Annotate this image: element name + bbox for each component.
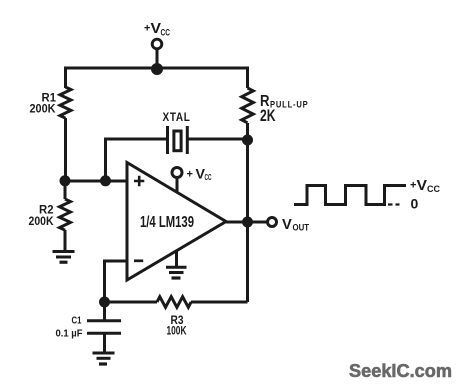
svg-text:XTAL: XTAL	[163, 110, 191, 124]
svg-text:2K: 2K	[260, 107, 276, 125]
svg-text:SeekIC.com: SeekIC.com	[349, 360, 452, 381]
svg-text:+: +	[144, 23, 150, 35]
svg-text:0: 0	[411, 196, 419, 212]
svg-text:C1: C1	[72, 316, 82, 327]
svg-text:OUT: OUT	[293, 223, 310, 233]
svg-text:V: V	[282, 216, 292, 233]
svg-text:V: V	[417, 177, 428, 194]
svg-text:200K: 200K	[30, 102, 56, 116]
svg-text:PULL-UP: PULL-UP	[270, 100, 309, 111]
svg-text:200K: 200K	[29, 214, 54, 228]
svg-text:CC: CC	[205, 172, 212, 182]
svg-text:1/4 LM139: 1/4 LM139	[140, 214, 194, 231]
svg-text:CC: CC	[161, 28, 171, 38]
svg-text:0.1 µF: 0.1 µF	[56, 328, 84, 340]
svg-text:100K: 100K	[167, 324, 187, 338]
svg-text:+: +	[410, 180, 416, 192]
svg-text:+: +	[187, 169, 193, 181]
svg-text:CC: CC	[427, 184, 440, 194]
svg-text:V: V	[151, 20, 162, 37]
